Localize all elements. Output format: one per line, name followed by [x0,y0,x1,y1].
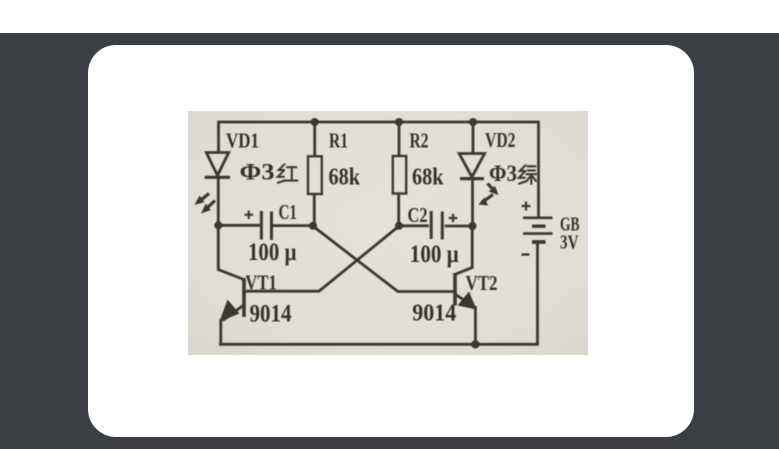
svg-text:100 µ: 100 µ [410,241,459,268]
LED VD1 cathode bar [205,176,230,179]
wire VT1 base to node C (cross coupling) [246,226,400,291]
LED VD1 triangle [206,153,228,176]
LED VD2 triangle [459,154,484,178]
VD2 arrow 2 head [479,198,489,206]
svg-text:R2: R2 [410,129,429,153]
VT1 emitter arrowhead [220,300,240,322]
resistor R1 body [308,156,322,194]
svg-text:VD2: VD2 [485,128,516,152]
wire node D down to VT2 collector [456,226,473,274]
transistor VT2 base bar [453,273,457,306]
hanzi red (hong) of VD1 label [278,164,298,183]
svg-text:VD1: VD1 [226,128,259,152]
svg-text:Φ3: Φ3 [489,161,517,186]
node B (R1/C1) [309,222,317,230]
battery GB plate long top [523,217,553,220]
white rounded card [88,45,694,437]
transistor VT1 base bar [242,278,246,317]
node C (R2/C2) [395,222,403,230]
VD1 arrow 1 head [195,196,205,206]
VD1 arrow 2 head [201,204,211,214]
svg-text:VT2: VT2 [466,271,498,295]
wire VD1 cathode to node A [217,178,220,226]
VD2 arrow 1 head [489,186,499,195]
VD2 emission arrow 1 [488,184,496,193]
svg-text:9014: 9014 [250,301,292,328]
svg-text:R1: R1 [329,129,348,153]
wire C2 right plate to node D [445,225,473,228]
wire R2 bottom to node C [397,194,400,226]
node R1 top junction [311,118,319,126]
svg-text:100 µ: 100 µ [248,239,297,266]
LED VD2 cathode bar [460,177,484,180]
svg-text:3V: 3V [560,232,579,254]
node D (C2/VD2/VT2) [469,222,477,230]
VT2 emitter arrowhead [458,292,477,310]
scanned schematic [188,111,588,355]
svg-text:9014: 9014 [412,300,456,326]
wire battery - to bottom rail [536,243,539,345]
capacitor C1 plates [260,211,263,240]
wire bottom rail [219,343,539,346]
node A (VD1/C1/VT1) [214,221,222,229]
wire VD2 cathode to node D [471,179,474,226]
wire node A to C1 left plate [218,224,259,227]
scanned paper background [188,111,588,355]
wire left top (VD1 anode) [217,121,220,153]
battery GB plate short [532,224,546,227]
wire right drop to battery + [537,121,540,217]
wire top rail [219,121,539,124]
wire VT2 emitter drop to rail [474,306,477,344]
wire R1 bottom to node B [313,194,316,226]
battery minus sign [522,253,530,255]
C2 plus sign [449,214,458,222]
wire VT2 emitter lead [456,295,475,308]
battery GB plate long [523,232,553,235]
svg-text:68k: 68k [412,165,444,191]
resistor R2 body [393,156,406,194]
svg-text:C1: C1 [279,200,298,224]
svg-text:Φ3: Φ3 [240,160,275,185]
wire VT2 base to node B (cross coupling) [313,226,454,292]
node VD2 top junction [469,118,477,126]
svg-text:VT1: VT1 [245,270,276,294]
node R2 top junction [395,118,403,126]
battery plus sign [522,202,531,211]
wire R1 top drop [313,122,316,156]
wire R2 top drop [398,122,401,156]
hanzi green (lu) of VD2 label [519,165,536,184]
wire VT1 emitter lead [223,305,245,321]
VD2 emission arrow 2 [482,195,493,203]
wire VT1 emitter drop to rail [219,319,222,344]
wire VD2 anode drop [472,122,475,154]
battery GB plate short bottom [532,240,546,244]
svg-text:C2: C2 [408,203,428,227]
wire node C to C2 left plate [399,224,429,227]
capacitor C2 plates [430,211,433,239]
VD1 emission arrow 2 [205,201,215,211]
VD1 emission arrow 1 [199,194,210,203]
C1 plus sign [245,211,254,219]
wire C1 right plate to node B [273,224,313,227]
svg-text:68k: 68k [329,165,361,191]
node E (VT2 emitter on rail) [471,340,479,348]
wire node A down to VT1 collector [218,225,244,279]
